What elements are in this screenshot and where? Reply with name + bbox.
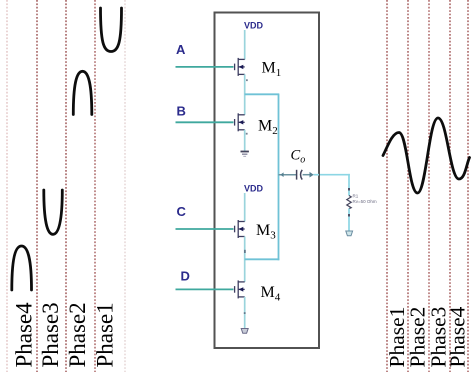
svg-text:Phase4: Phase4 bbox=[446, 306, 470, 367]
svg-text:Phase2: Phase2 bbox=[65, 302, 90, 367]
wire input B to M2 gate bbox=[176, 121, 234, 123]
ground symbol below M2 bbox=[241, 152, 249, 157]
left label Phase3 bbox=[38, 302, 63, 367]
wire junction M3/M4 to output rail bbox=[245, 258, 280, 260]
transistor M3 (NMOS) bbox=[235, 220, 245, 238]
node marker near M3 source bbox=[244, 250, 246, 253]
output wire box edge to load corner bbox=[320, 174, 350, 176]
vertical output rail wire bbox=[278, 94, 280, 260]
input label B bbox=[177, 104, 186, 119]
svg-text:M: M bbox=[258, 118, 272, 135]
wire M4 source to ground bbox=[244, 297, 246, 328]
left phase lane dashed line 1 bbox=[6, 0, 8, 372]
svg-text:Phase1: Phase1 bbox=[93, 302, 118, 367]
svg-text:Phase4: Phase4 bbox=[12, 302, 37, 368]
input label D bbox=[181, 269, 190, 284]
svg-text:VDD: VDD bbox=[244, 21, 264, 31]
transistor M1 (NMOS) bbox=[235, 58, 245, 76]
circuit boundary box bbox=[215, 13, 320, 349]
svg-text:2: 2 bbox=[272, 125, 278, 137]
label M2 bbox=[258, 118, 278, 138]
svg-text:M: M bbox=[261, 284, 275, 301]
ground symbol below M4 bbox=[241, 329, 248, 334]
resistor R1 zigzag bbox=[347, 196, 351, 209]
left label Phase2 bbox=[65, 302, 90, 367]
input label A bbox=[176, 42, 186, 57]
Phase1 input pulse waveform (left, U shape) bbox=[101, 8, 122, 52]
ground symbol below R1 bbox=[346, 231, 353, 236]
svg-text:o: o bbox=[300, 155, 305, 166]
right label Phase2 bbox=[406, 307, 430, 368]
capacitor Co label bbox=[291, 148, 306, 166]
Phase4 input pulse waveform (left, arch shape) bbox=[12, 246, 32, 290]
right label Phase1 bbox=[385, 307, 409, 368]
svg-text:VDD: VDD bbox=[244, 184, 264, 194]
svg-text:A: A bbox=[176, 42, 186, 57]
svg-text:C: C bbox=[291, 148, 301, 164]
label M3 bbox=[256, 222, 276, 242]
wire input A to M1 gate bbox=[176, 66, 234, 68]
wire input C to M3 gate bbox=[176, 228, 234, 230]
label R1 bbox=[353, 194, 359, 199]
wire M1 source to M2 drain bbox=[244, 74, 246, 114]
right phase lane dashed line 5 bbox=[467, 0, 469, 372]
label Rv=50 Ohm bbox=[353, 199, 377, 204]
left phase lane dashed line 3 bbox=[65, 0, 67, 372]
node marker near M2 source bbox=[246, 133, 248, 135]
wire VDD2 to M3 drain bbox=[244, 193, 246, 222]
label M1 bbox=[262, 60, 282, 80]
resistor terminal tick bottom bbox=[348, 214, 350, 217]
svg-text:3: 3 bbox=[270, 230, 276, 242]
left label Phase1 bbox=[93, 302, 118, 367]
left phase lane dashed line 2 bbox=[36, 0, 38, 372]
right phase lane dashed line 3 bbox=[428, 0, 430, 372]
wire junction M1/M2 to output rail bbox=[245, 93, 280, 95]
right phase lane dashed line 1 bbox=[386, 0, 388, 372]
label M4 bbox=[261, 284, 281, 304]
svg-text:M: M bbox=[256, 222, 270, 239]
output wire vertical down to resistor bbox=[348, 174, 350, 196]
resistor terminal tick top bbox=[348, 188, 350, 191]
wire M3 source to M4 drain bbox=[244, 237, 246, 282]
wire capacitor to box edge with arrow bbox=[303, 172, 319, 178]
right phase lane dashed line 4 bbox=[449, 0, 451, 372]
svg-text:D: D bbox=[181, 269, 190, 284]
svg-text:R1: R1 bbox=[353, 194, 359, 199]
right label Phase3 bbox=[427, 307, 451, 368]
left phase lane dashed line 5 bbox=[124, 0, 126, 372]
svg-text:M: M bbox=[262, 60, 276, 77]
node marker near M1 source bbox=[246, 79, 248, 81]
Phase2 input pulse waveform (left, arch shape) bbox=[73, 71, 92, 114]
input label C bbox=[177, 204, 187, 219]
wire input D to M4 gate bbox=[176, 288, 234, 290]
node marker near M4 source bbox=[244, 312, 246, 314]
svg-text:4: 4 bbox=[275, 292, 281, 304]
wire M2 source to ground bbox=[244, 130, 246, 151]
transistor M2 (NMOS) bbox=[235, 113, 245, 131]
wire resistor to ground bbox=[348, 209, 350, 231]
right phase lane dashed line 2 bbox=[407, 0, 409, 372]
svg-text:1: 1 bbox=[276, 67, 282, 79]
left phase lane dashed line 4 bbox=[94, 0, 96, 372]
wire output rail to capacitor bbox=[279, 172, 297, 177]
VDD label (lower supply) bbox=[244, 184, 264, 194]
svg-text:Phase3: Phase3 bbox=[38, 302, 63, 367]
Phase3 input pulse waveform (left, U shape) bbox=[44, 190, 63, 234]
wire VDD to M1 drain bbox=[244, 30, 246, 60]
svg-text:Rv=50 Ohm: Rv=50 Ohm bbox=[353, 199, 377, 204]
output sine waveform (right) bbox=[383, 118, 470, 193]
VDD label (top supply) bbox=[244, 21, 264, 31]
svg-text:B: B bbox=[177, 104, 186, 119]
capacitor Co bbox=[297, 170, 303, 180]
transistor M4 (NMOS) bbox=[235, 280, 245, 298]
left label Phase4 bbox=[12, 302, 37, 368]
svg-text:C: C bbox=[177, 204, 187, 219]
right label Phase4 bbox=[446, 306, 470, 367]
